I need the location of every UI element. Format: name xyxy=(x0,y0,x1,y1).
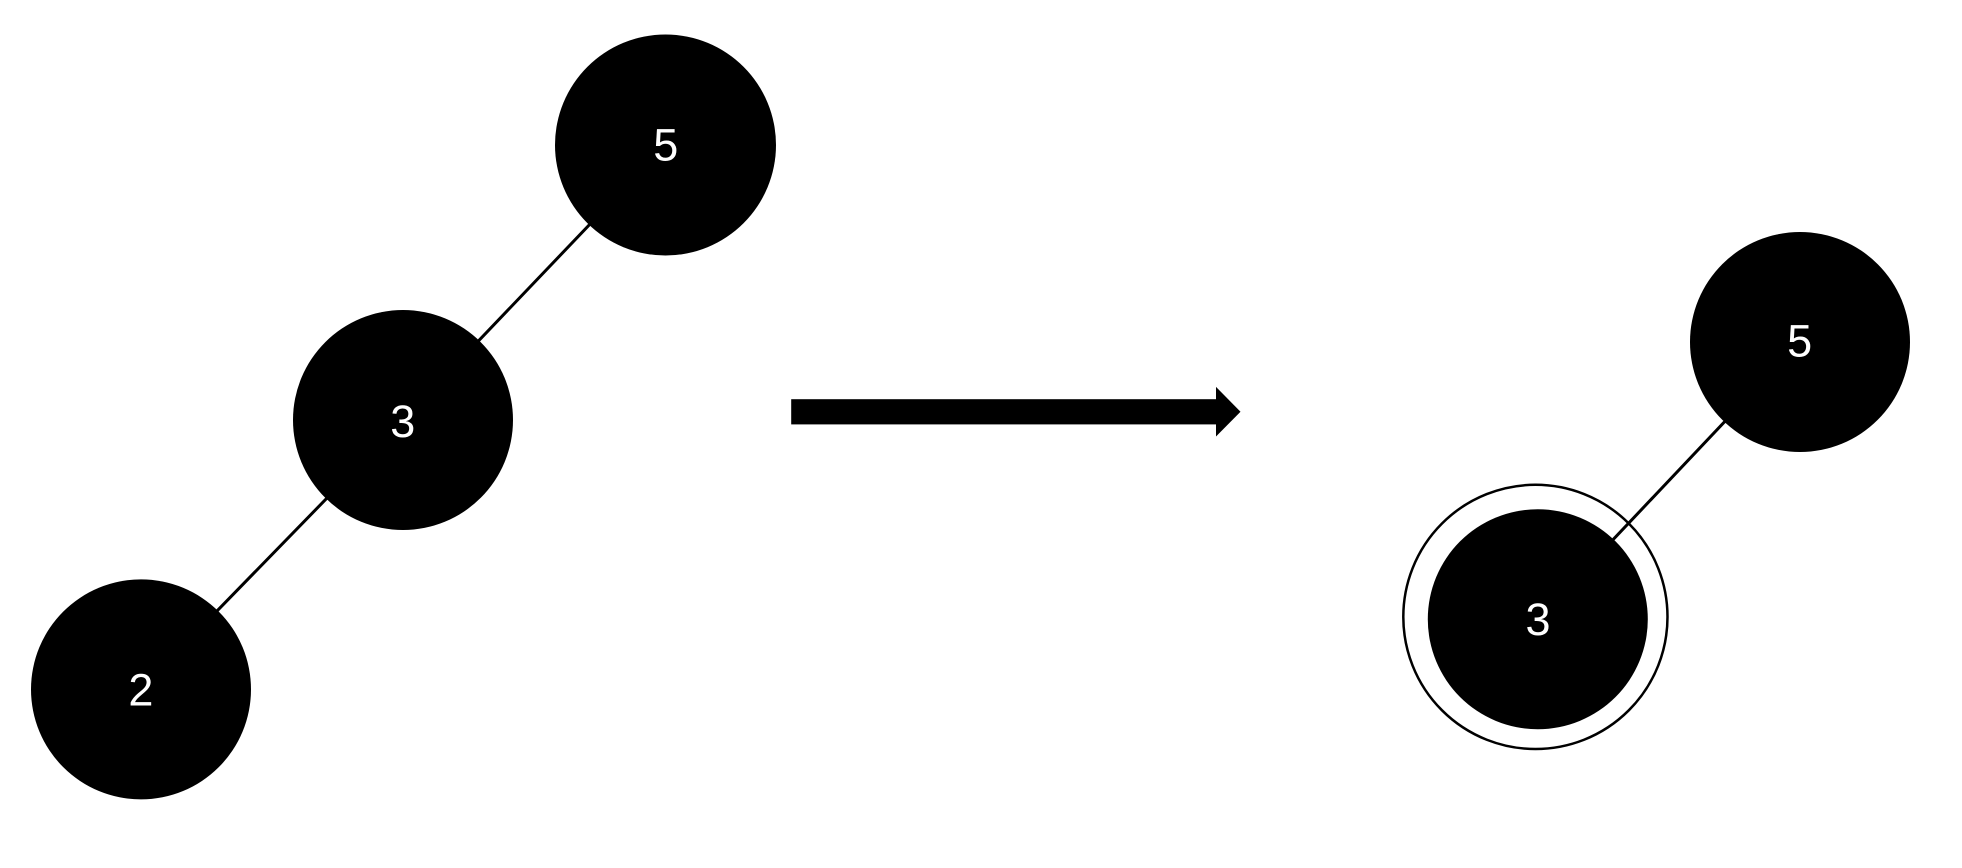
node 2 xyxy=(31,579,251,799)
svg-text:2: 2 xyxy=(128,664,153,715)
wire xyxy=(403,145,666,420)
arrow xyxy=(791,387,1240,437)
svg-text:5: 5 xyxy=(653,120,678,171)
wire xyxy=(141,420,403,689)
node 3 xyxy=(293,310,513,530)
node 5 xyxy=(1690,232,1910,452)
wire xyxy=(1538,342,1800,619)
svg-text:3: 3 xyxy=(1525,594,1550,645)
svg-text:5: 5 xyxy=(1787,316,1812,367)
node 5 xyxy=(555,35,776,256)
node 3 (double circle) xyxy=(1403,485,1667,749)
svg-text:3: 3 xyxy=(390,396,415,447)
